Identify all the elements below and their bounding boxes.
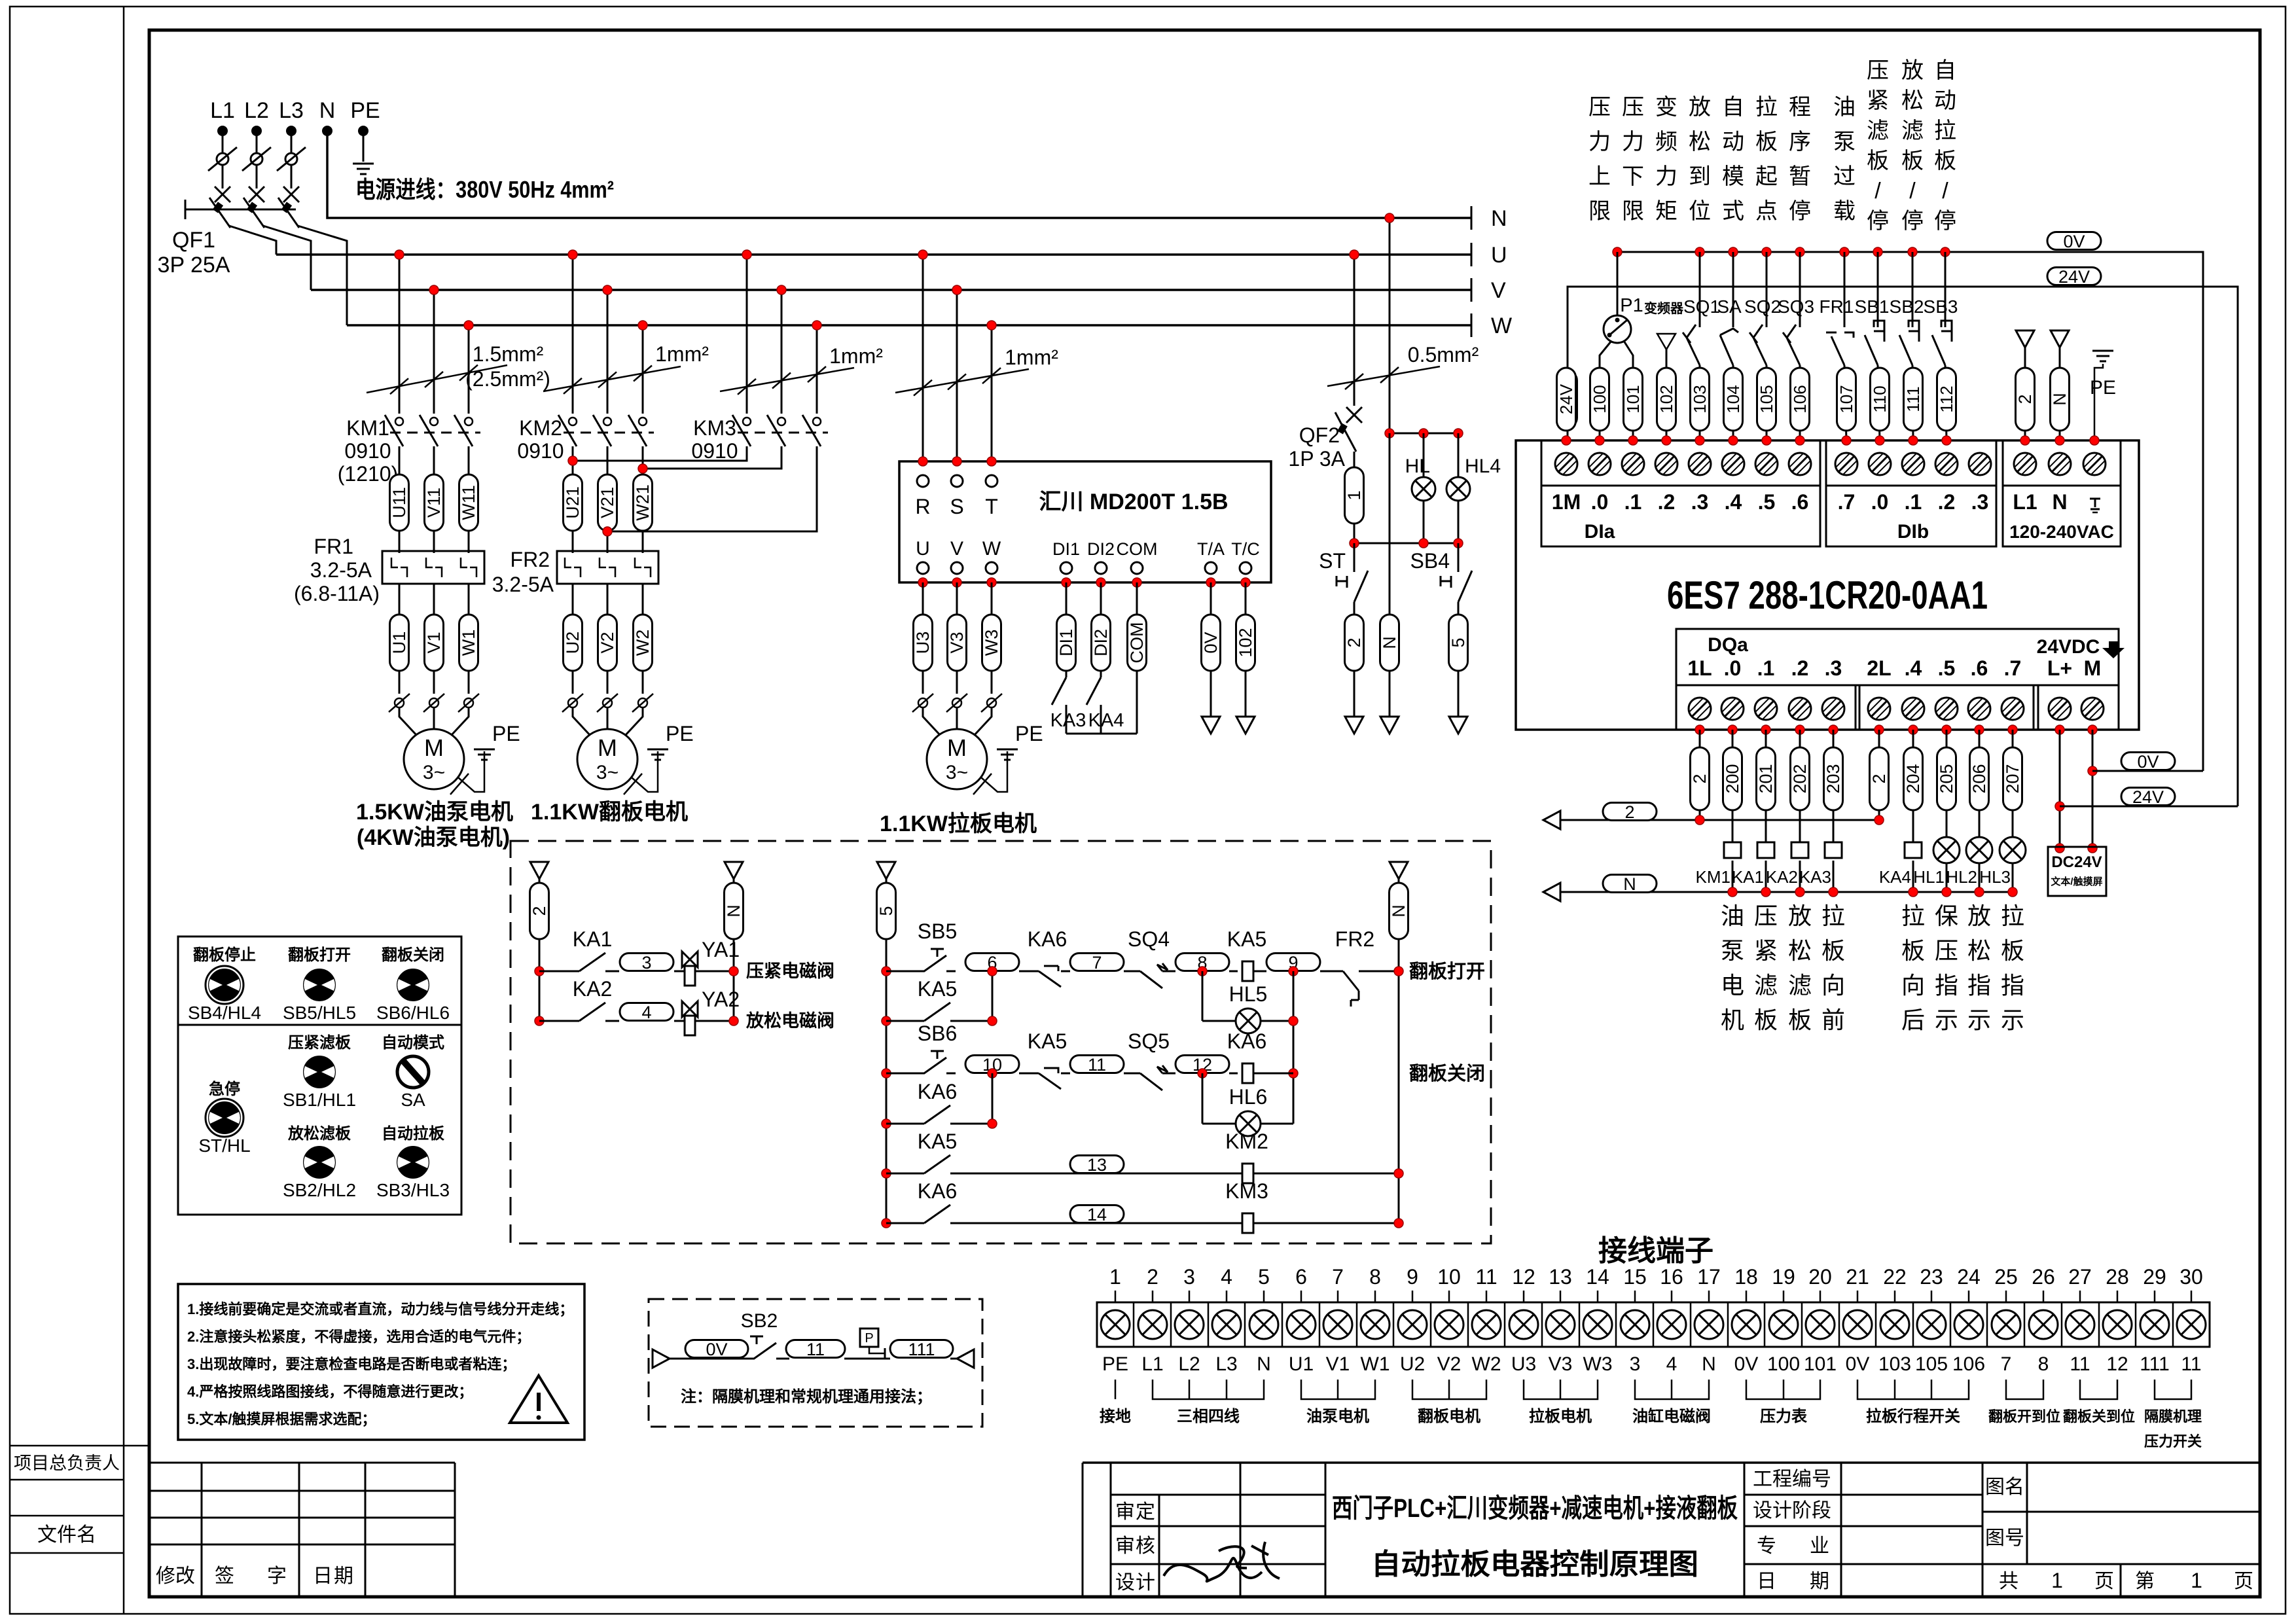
- svg-text:(6.8-11A): (6.8-11A): [294, 582, 380, 605]
- wire tag 9: [1266, 953, 1320, 972]
- motor M2 PE link: [632, 751, 658, 792]
- wire tag 206: [1979, 730, 1981, 843]
- junction: [2090, 436, 2099, 445]
- solenoid valve YA1: [682, 952, 698, 967]
- wire L1 drop: [222, 131, 224, 188]
- svg-text:.6: .6: [1971, 656, 1988, 680]
- wire tag 8: [1175, 953, 1229, 972]
- junction: [1795, 725, 1804, 734]
- svg-text:25: 25: [1994, 1265, 2018, 1289]
- svg-text:.5: .5: [1938, 656, 1956, 680]
- svg-text:KM3: KM3: [693, 416, 736, 440]
- junction: [1595, 436, 1604, 445]
- svg-text:5: 5: [1448, 637, 1468, 647]
- svg-text:L2: L2: [1178, 1353, 1200, 1375]
- svg-text:2: 2: [1344, 637, 1364, 647]
- motor M2 1.1KW: [577, 729, 637, 789]
- junction: [1942, 725, 1951, 734]
- DC24V touchscreen box: [2048, 847, 2106, 896]
- fuse-disconnect L3: [277, 147, 306, 171]
- wire S drop: [956, 290, 958, 461]
- svg-text:0V: 0V: [2137, 752, 2159, 772]
- svg-text:1.接线前要确定是交流或者直流，动力线与信号线分开走线；: 1.接线前要确定是交流或者直流，动力线与信号线分开走线；: [187, 1301, 573, 1317]
- junction rail5: [882, 1219, 891, 1228]
- revision table: [149, 1463, 455, 1597]
- svg-text:1: 1: [2191, 1569, 2202, 1592]
- terminal 17: [1708, 1291, 1710, 1302]
- terminal 26: [2043, 1291, 2045, 1302]
- svg-text:.3: .3: [1971, 490, 1989, 514]
- svg-text:23: 23: [1920, 1265, 1943, 1289]
- wire L1 to U bus: [229, 226, 276, 255]
- tag 0V top: [2047, 232, 2101, 251]
- terminal 6: [1300, 1291, 1302, 1302]
- junction: [988, 967, 997, 976]
- svg-text:P: P: [865, 1331, 873, 1346]
- wire tag 2 (ST out): [1344, 615, 1364, 671]
- svg-text:SQ3: SQ3: [1778, 296, 1814, 317]
- svg-text:.1: .1: [1624, 490, 1642, 514]
- svg-text:R: R: [915, 495, 930, 518]
- svg-text:2.注意接头松紧度，不得虚接，选用合适的电气元件；: 2.注意接头松紧度，不得虚接，选用合适的电气元件；: [187, 1329, 530, 1345]
- svg-text:N: N: [1257, 1353, 1271, 1375]
- svg-text:3~: 3~: [596, 762, 619, 783]
- svg-text:电源进线：380V 50Hz 4mm²: 电源进线：380V 50Hz 4mm²: [355, 176, 614, 203]
- svg-text:0V: 0V: [2063, 232, 2085, 251]
- note dashed box 隔膜机理: [649, 1299, 982, 1427]
- rail N right: [1390, 862, 1408, 879]
- svg-text:S: S: [950, 495, 963, 518]
- tag 0V bottom: [2121, 752, 2175, 772]
- wire 0V top bus: [1616, 252, 2203, 771]
- svg-text:定: 定: [1136, 1501, 1155, 1523]
- junction: [1874, 725, 1884, 734]
- svg-text:V1: V1: [424, 632, 444, 653]
- tag 24V top: [2047, 267, 2101, 287]
- svg-text:核: 核: [1136, 1535, 1155, 1557]
- wire tag W3: [991, 582, 993, 694]
- junction W-KM3: [812, 321, 821, 330]
- svg-text:PE: PE: [350, 98, 380, 123]
- wire tag V11: [433, 446, 435, 553]
- wire T/C to arrow: [1245, 582, 1247, 717]
- junction 0V-P1: [1613, 247, 1622, 257]
- junction rail5: [882, 1119, 891, 1128]
- svg-text:变频器: 变频器: [1644, 300, 1684, 316]
- breaker terminal x L3: [283, 187, 299, 202]
- wire tag V2: [607, 584, 609, 694]
- wire tag 24V rail: [1558, 371, 1577, 427]
- wire R drop: [922, 255, 924, 461]
- svg-text:翻板停止: 翻板停止: [193, 946, 256, 964]
- terminal 12: [1523, 1291, 1525, 1302]
- svg-text:SQ4: SQ4: [1128, 927, 1170, 951]
- svg-text:U21: U21: [563, 486, 583, 519]
- svg-text:KM1: KM1: [1696, 867, 1731, 887]
- junction: [1394, 967, 1403, 976]
- svg-text:翻板关闭: 翻板关闭: [382, 946, 444, 964]
- wire tag 102: [1657, 368, 1676, 431]
- svg-text:业: 业: [1810, 1535, 1829, 1557]
- svg-text:1: 1: [1344, 490, 1364, 500]
- tag 2 horizontal: [1603, 802, 1657, 822]
- svg-text:26: 26: [2032, 1265, 2055, 1289]
- svg-text:W1: W1: [1361, 1353, 1390, 1375]
- svg-text:N: N: [1389, 904, 1408, 918]
- junction: [1975, 725, 1984, 734]
- wires into motor M1: [399, 707, 417, 736]
- lamp HL4: [1458, 433, 1460, 477]
- wire tag 205: [1946, 730, 1948, 843]
- wire tag 202: [1799, 730, 1801, 843]
- svg-text:0V: 0V: [1201, 632, 1221, 653]
- junction T/C: [1241, 578, 1250, 587]
- svg-text:U2: U2: [563, 632, 583, 654]
- svg-text:17: 17: [1697, 1265, 1721, 1289]
- contact KA4: [1086, 677, 1101, 705]
- wire KM3 pole1 to KM2 U21: [573, 446, 747, 461]
- svg-text:U2: U2: [1400, 1353, 1425, 1375]
- junction: [729, 1016, 738, 1026]
- junction: [535, 967, 544, 976]
- wire size 1.5mm2 slash: [367, 365, 507, 393]
- svg-text:油泵电机: 油泵电机: [1306, 1408, 1369, 1425]
- svg-text:1: 1: [2051, 1569, 2063, 1592]
- junction: [535, 1016, 544, 1026]
- svg-text:N: N: [2050, 393, 2070, 406]
- junction U-R: [918, 250, 927, 259]
- svg-text:3.2-5A: 3.2-5A: [492, 573, 554, 596]
- PLC DIa terminal strip: [1541, 440, 1820, 486]
- wire tag 200: [1732, 730, 1734, 843]
- svg-text:翻板开到位: 翻板开到位: [1988, 1408, 2060, 1425]
- wire T drop: [991, 325, 993, 461]
- junction: [988, 1069, 997, 1078]
- wire tag 110: [1870, 368, 1890, 431]
- wire tag N (lamp neutral): [1389, 433, 1391, 615]
- screw terminal DIb: [1969, 453, 1991, 475]
- wire 24V top bus: [1568, 287, 2238, 806]
- svg-text:字: 字: [267, 1565, 287, 1587]
- wire tag U3: [922, 582, 924, 694]
- svg-text:自动拉板: 自动拉板: [382, 1124, 445, 1143]
- screw terminal DIb: [1869, 453, 1891, 475]
- svg-text:KA6: KA6: [918, 1080, 957, 1103]
- screw terminal DIb: [1835, 453, 1857, 475]
- junction: [1289, 1069, 1298, 1078]
- screw terminal DQa: [1755, 698, 1777, 720]
- signature scribble: [1164, 1542, 1280, 1581]
- svg-text:SB6/HL6: SB6/HL6: [376, 1003, 450, 1023]
- svg-text:压紧滤板: 压紧滤板: [288, 1034, 351, 1052]
- screw terminal DQa: [1868, 698, 1890, 720]
- lamp HL1: [1946, 838, 1948, 843]
- wire tag 100: [1590, 368, 1609, 431]
- terminal 8: [1374, 1291, 1376, 1302]
- svg-text:西门子PLC+汇川变频器+减速电机+接液翻板: 西门子PLC+汇川变频器+减速电机+接液翻板: [1332, 1494, 1738, 1523]
- junction: [1761, 887, 1770, 897]
- screw terminal DQa: [2049, 698, 2071, 720]
- svg-text:106: 106: [1952, 1353, 1985, 1375]
- svg-text:3: 3: [1183, 1265, 1195, 1289]
- screw terminal DQa: [2001, 698, 2024, 720]
- wire L2 drop: [256, 131, 258, 188]
- motor M1 1.5KW: [404, 729, 464, 789]
- svg-text:签: 签: [215, 1565, 234, 1587]
- terminal 19: [1783, 1291, 1785, 1302]
- terminal 9: [1412, 1291, 1414, 1302]
- svg-text:4: 4: [1666, 1353, 1677, 1375]
- junction U: [918, 578, 927, 587]
- wire tag DI1: [1066, 582, 1067, 677]
- lamp HL6 branch: [1202, 1073, 1204, 1124]
- svg-text:2: 2: [1147, 1265, 1158, 1289]
- svg-text:14: 14: [1586, 1265, 1609, 1289]
- group 拉板电机: [1524, 1380, 1598, 1399]
- junction W-KM2: [638, 321, 647, 330]
- svg-text:.2: .2: [1938, 490, 1956, 514]
- wire N drop for lamps: [1389, 218, 1391, 433]
- coil KA1: [1757, 842, 1774, 858]
- svg-text:P1: P1: [1620, 295, 1643, 316]
- screw terminal DIa: [1689, 453, 1711, 475]
- svg-text:翻板关到位: 翻板关到位: [2063, 1408, 2135, 1425]
- PLC AC terminal strip: [2003, 440, 2121, 486]
- KM1 linkage dashed: [390, 432, 480, 434]
- junction W21-KM3: [638, 464, 647, 473]
- terminal 2: [1152, 1291, 1154, 1302]
- svg-text:W21: W21: [633, 484, 653, 521]
- wire tag W11: [468, 446, 470, 553]
- wire KM3 pole2 to KM2 W21: [643, 446, 781, 469]
- PLC 6ES7 288-1CR20-0AA1 outer box: [1516, 440, 2139, 730]
- svg-text:DI1: DI1: [1052, 539, 1080, 559]
- junction: [1628, 436, 1638, 445]
- svg-text:11: 11: [2070, 1353, 2090, 1375]
- wire tag COM: [1136, 582, 1138, 734]
- junction: [1942, 436, 1951, 445]
- junction DI1: [1062, 578, 1071, 587]
- terminal 30: [2191, 1291, 2193, 1302]
- svg-text:4.严格按照线路图接线，不得随意进行更改；: 4.严格按照线路图接线，不得随意进行更改；: [187, 1383, 473, 1400]
- coil KA3: [1825, 842, 1842, 858]
- svg-text:W3: W3: [1583, 1353, 1613, 1375]
- terminal 11: [1486, 1291, 1488, 1302]
- svg-text:203: 203: [1823, 764, 1843, 793]
- wire W bus: [347, 324, 1471, 327]
- svg-text:SB1: SB1: [1855, 296, 1890, 317]
- contactor KM2: [558, 415, 577, 446]
- junction U-KM3: [742, 250, 751, 259]
- svg-text:共: 共: [1999, 1571, 2018, 1592]
- junction: [1842, 436, 1851, 445]
- svg-text:1: 1: [1109, 1265, 1121, 1289]
- wire tag W21: [642, 446, 644, 553]
- wire tag 2 (L1 feed): [2016, 330, 2034, 348]
- svg-text:KA6: KA6: [1227, 1029, 1266, 1053]
- group 接地: [1115, 1380, 1117, 1399]
- svg-text:SB5/HL5: SB5/HL5: [283, 1003, 356, 1023]
- svg-text:8: 8: [2038, 1353, 2049, 1375]
- screw terminal AC: [2014, 453, 2036, 475]
- svg-text:1.5KW油泵电机: 1.5KW油泵电机: [356, 800, 513, 825]
- svg-text:5: 5: [876, 906, 896, 916]
- svg-text:PE: PE: [666, 722, 694, 745]
- svg-text:12: 12: [1512, 1265, 1535, 1289]
- svg-text:205: 205: [1937, 764, 1956, 793]
- svg-text:24V: 24V: [2132, 787, 2164, 807]
- svg-text:YA1: YA1: [702, 938, 740, 961]
- junction V-KM2: [603, 285, 612, 294]
- svg-text:120-240VAC: 120-240VAC: [2009, 522, 2114, 542]
- svg-text:0V: 0V: [706, 1340, 727, 1359]
- svg-text:急停: 急停: [209, 1080, 240, 1098]
- terminal 15: [1634, 1291, 1636, 1302]
- svg-text:设: 设: [1115, 1572, 1135, 1594]
- svg-text:三相四线: 三相四线: [1177, 1408, 1240, 1425]
- thermal relay FR1: [382, 551, 484, 584]
- wire tag V3: [956, 582, 958, 694]
- svg-text:102: 102: [1657, 385, 1676, 413]
- junction: [2055, 725, 2064, 734]
- svg-text:3~: 3~: [423, 762, 445, 783]
- lamp HL5 branch: [1202, 971, 1204, 1021]
- ground PE at PLC: [2094, 364, 2103, 440]
- svg-text:M: M: [947, 734, 967, 761]
- junction lamp-N-2: [1419, 429, 1428, 438]
- svg-text:DIb: DIb: [1897, 521, 1929, 543]
- wire KM3 pole3 to KM2 V21: [607, 446, 817, 531]
- svg-text:112: 112: [1937, 385, 1956, 412]
- terminal 1: [1115, 1291, 1117, 1302]
- svg-text:SQ2: SQ2: [1744, 296, 1781, 317]
- screw terminal AC: [2049, 453, 2071, 475]
- svg-text:W11: W11: [459, 485, 478, 520]
- svg-text:104: 104: [1723, 385, 1743, 413]
- rail 2: [530, 862, 548, 879]
- rail N left: [725, 862, 743, 879]
- screw terminal DIa: [1622, 453, 1644, 475]
- svg-text:29: 29: [2143, 1265, 2166, 1289]
- svg-text:SB3: SB3: [1924, 296, 1958, 317]
- branch node9 vertical: [1293, 971, 1295, 1124]
- junction: [1695, 725, 1704, 734]
- junction: [1662, 436, 1671, 445]
- junction: [1695, 436, 1704, 445]
- terminal 3: [1189, 1291, 1191, 1302]
- wire tag 207: [2012, 730, 2014, 843]
- svg-text:文件名: 文件名: [37, 1524, 96, 1546]
- svg-text:期: 期: [334, 1565, 353, 1587]
- svg-text:V2: V2: [598, 632, 617, 653]
- svg-text:KA2: KA2: [573, 977, 612, 1001]
- rail 5: [877, 862, 895, 879]
- group 油缸电磁阀: [1635, 1380, 1709, 1399]
- junction ctl-1: [1350, 539, 1359, 548]
- svg-text:PE: PE: [492, 722, 520, 745]
- junction V21-KM3: [603, 527, 612, 536]
- screw terminal DQa: [1968, 698, 1990, 720]
- svg-text:W2: W2: [1472, 1353, 1501, 1375]
- terminal 16: [1671, 1291, 1673, 1302]
- svg-text:DI2: DI2: [1087, 539, 1115, 559]
- wire tag 14: [1070, 1205, 1124, 1224]
- svg-text:.5: .5: [1758, 490, 1776, 514]
- svg-text:3: 3: [641, 953, 651, 972]
- notes box: [178, 1284, 584, 1440]
- wire size 1mm2 slash KM2: [543, 366, 681, 391]
- svg-text:第: 第: [2135, 1571, 2155, 1592]
- svg-text:102: 102: [1236, 628, 1255, 657]
- svg-text:107: 107: [1837, 385, 1856, 413]
- junction rail5: [882, 1069, 891, 1078]
- svg-text:1.1KW拉板电机: 1.1KW拉板电机: [880, 811, 1037, 836]
- wire T/A to arrow: [1210, 582, 1212, 717]
- group 翻板关到位: [2080, 1380, 2117, 1399]
- screw terminal DQa: [1721, 698, 1744, 720]
- svg-text:DI1: DI1: [1056, 629, 1076, 656]
- svg-text:.0: .0: [1591, 490, 1609, 514]
- svg-text:11: 11: [1088, 1055, 1106, 1075]
- svg-text:SB5: SB5: [918, 919, 957, 943]
- svg-text:206: 206: [1969, 764, 1989, 793]
- svg-text:1mm²: 1mm²: [829, 344, 883, 368]
- junction: [2088, 725, 2097, 734]
- svg-text:KA3: KA3: [1050, 710, 1086, 731]
- svg-text:.6: .6: [1791, 490, 1809, 514]
- screw terminal DIb: [1935, 453, 1958, 475]
- junction: [1289, 1016, 1298, 1026]
- svg-text:U3: U3: [1511, 1353, 1536, 1375]
- svg-text:0910: 0910: [344, 439, 391, 463]
- junction S: [952, 457, 961, 466]
- wire tag 10: [965, 1055, 1019, 1075]
- svg-text:3~: 3~: [946, 762, 968, 783]
- svg-text:期: 期: [1810, 1571, 1829, 1592]
- svg-text:M: M: [2084, 656, 2102, 680]
- svg-text:.1: .1: [1905, 490, 1922, 514]
- svg-text:1.1KW翻板电机: 1.1KW翻板电机: [531, 800, 688, 825]
- svg-text:24: 24: [1957, 1265, 1981, 1289]
- contactor KM3: [732, 415, 751, 446]
- wire tag 4: [620, 1003, 673, 1022]
- svg-text:N: N: [1380, 636, 1399, 649]
- junction node9: [1289, 967, 1298, 976]
- svg-text:V3: V3: [1549, 1353, 1573, 1375]
- wire size 0.5mm2 slash: [1327, 366, 1440, 386]
- terminal 4: [1226, 1291, 1228, 1302]
- title block: [1083, 1463, 2260, 1597]
- screw terminal DIa: [1722, 453, 1744, 475]
- junction U-QF2: [1350, 250, 1359, 259]
- wire tag 112: [1937, 368, 1956, 431]
- ground M1 PE: [474, 749, 495, 760]
- svg-text:1mm²: 1mm²: [655, 342, 709, 366]
- junction N-lamps: [1385, 213, 1394, 223]
- svg-text:放松滤板: 放松滤板: [287, 1124, 351, 1143]
- junction W-T: [987, 321, 996, 330]
- tag N horizontal: [1603, 874, 1657, 894]
- junction R: [918, 457, 927, 466]
- svg-text:.7: .7: [2004, 656, 2022, 680]
- svg-text:.4: .4: [1905, 656, 1922, 680]
- svg-text:N: N: [724, 904, 744, 918]
- svg-text:SQ1: SQ1: [1683, 296, 1720, 317]
- junction: [1909, 436, 1918, 445]
- wire QF2 drop from U bus: [1354, 255, 1355, 406]
- wire tag 106: [1790, 368, 1810, 431]
- svg-text:KA6: KA6: [1028, 927, 1067, 951]
